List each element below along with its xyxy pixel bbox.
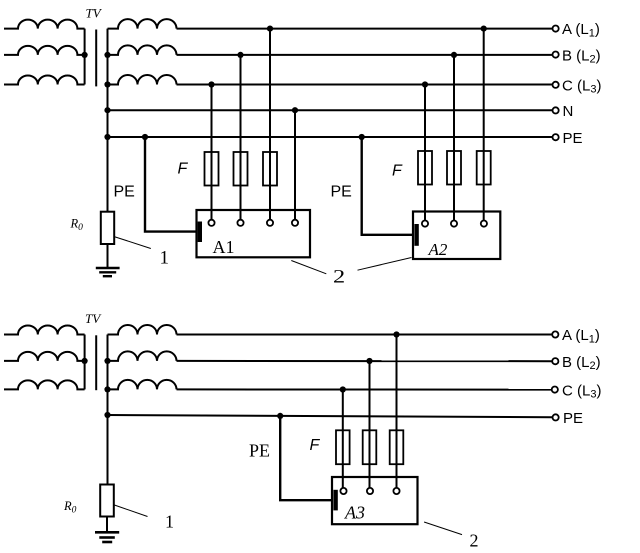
transformer TV primary winding phase 3 (bottom) [4,380,85,389]
wire secondary bus down to earthing resistor (bottom) [107,335,109,485]
fuse F phase A (bottom) [390,430,404,464]
load box A1 [197,210,311,257]
terminal line B [553,52,559,58]
junction PE line branch to A2 [359,134,365,140]
wire drop C to fuse F1 (bottom) [342,390,344,488]
transformer TV primary winding phase 2 [4,46,85,55]
junction C line drop (bottom) [340,386,346,392]
terminal line B (bottom) [552,358,558,364]
junction B line drop (bottom) [366,358,372,364]
svg-text:F: F [392,162,403,179]
svg-text:TV: TV [86,6,103,21]
svg-text:F: F [178,160,189,177]
terminal line C [553,82,559,88]
transformer TV primary winding phase 1 (bottom) [4,325,85,334]
svg-text:A (L1): A (L1) [562,327,600,345]
leader line from A3 to callout 2 (bottom) [424,522,462,535]
svg-text:N: N [563,103,574,120]
pin terminal 2 of A1 [237,220,243,226]
wire R0 to ground [107,244,109,267]
svg-text:A3: A3 [344,503,365,523]
transformer TV secondary winding phase B [108,45,177,55]
wire primary star bus (bottom) [84,335,86,390]
pin terminal 3 of A1 [267,220,273,226]
junction C line drop 1 [208,81,214,87]
transformer TV primary winding phase 2 (bottom) [4,352,85,361]
junction N line drop 4 [292,107,298,113]
resistor R0 earthing resistor (bottom) [100,485,114,517]
fuse F group2 phase B [447,151,461,185]
transformer TV core bar (bottom) [95,335,97,390]
junction secondary bus phase B (bottom) [104,358,110,364]
pin terminal 3 of A3 [393,488,399,494]
fuse F phase B (bottom) [363,430,377,464]
wire R0 to ground (bottom) [106,517,108,532]
transformer TV secondary winding phase B (bottom) [108,351,177,361]
wire PE branch to A2 [362,137,414,235]
wire line C (L3) [177,84,553,86]
fuse F group2 phase A [477,151,491,185]
wire PE branch to A1 [145,137,197,232]
terminal line C (bottom) [552,387,558,393]
wire drop A to fuse F3 group 2 [483,29,485,221]
svg-text:PE: PE [563,410,583,427]
wire line B (L2) [177,54,553,56]
svg-text:TV: TV [85,311,102,326]
pin terminal 2 of A2 [451,221,457,227]
PE terminal bar of A2 [414,224,418,246]
junction PE line branch to A1 [142,134,148,140]
ground symbol (bottom) [95,532,119,542]
wire primary star bus [84,29,86,85]
wire drop N to A1 terminal 4 [294,110,296,220]
fuse F group1 phase B [234,152,248,186]
resistor R0 earthing resistor (top) [101,212,114,244]
terminal line PE (bottom) [553,414,559,420]
junction A line drop 3 [267,26,273,32]
wire line A (L1) bottom [177,334,553,336]
svg-text:A (L1): A (L1) [562,21,600,39]
fuse F group1 phase C [205,152,219,186]
transformer TV core bar [95,30,97,87]
svg-text:R0: R0 [70,216,84,233]
transformer TV primary winding phase 1 [4,20,85,29]
junction B line drop group2 [451,52,457,58]
svg-text:A1: A1 [213,237,235,257]
transformer TV secondary winding phase C (bottom) [108,380,177,389]
svg-text:PE: PE [563,130,583,147]
leader line to callout 1 (top) [114,237,151,249]
ground symbol (top) [96,268,120,276]
svg-text:1: 1 [165,512,174,532]
wire drop C to fuse F1 group 2 [424,85,426,221]
svg-text:R0: R0 [63,499,77,516]
fuse F group1 phase A [263,152,277,186]
junction primary bus phase 2 [82,52,88,58]
svg-text:2: 2 [333,266,345,287]
junction primary bus phase 2 (bottom) [82,358,88,364]
junction secondary bus N line [104,107,110,113]
pin terminal 1 of A2 [422,221,428,227]
PE terminal bar of A1 [198,222,202,243]
transformer TV secondary winding phase C [108,75,177,85]
PE terminal bar of A3 [333,490,337,511]
junction PE line branch to A3 [277,413,283,419]
fuse F phase C (bottom) [336,430,350,464]
junction A line drop (bottom) [393,331,399,337]
wire drop B to fuse F2 group 1 [240,55,242,220]
junction secondary bus phase C (bottom) [104,386,110,392]
leader line to callout 1 (bottom) [114,505,148,517]
junction secondary bus phase B [104,52,110,58]
wire drop B to fuse F2 (bottom) [369,361,371,488]
junction B line drop 2 [237,52,243,58]
svg-text:PE: PE [249,441,270,461]
junction secondary bus PE line (bottom) [104,412,110,418]
transformer TV secondary winding phase A (bottom) [108,325,177,335]
pin terminal 3 of A2 [481,221,487,227]
load box A2 [413,212,500,260]
pin terminal 4 of A1 [292,220,298,226]
wire drop B to fuse F2 group 2 [453,55,455,221]
svg-text:C (L3): C (L3) [562,77,601,95]
svg-text:B (L2): B (L2) [562,47,601,65]
wire PE branch to A3 [280,416,333,500]
svg-text:C (L3): C (L3) [562,382,601,400]
junction A line drop group2 [481,26,487,32]
junction C line drop group2 [422,81,428,87]
terminal line A [553,26,559,32]
svg-text:A2: A2 [428,240,448,259]
leader line from A2 to callout 2 [358,258,412,271]
svg-text:B (L2): B (L2) [562,354,601,372]
junction secondary bus phase C [104,81,110,87]
wire drop A to fuse F3 (bottom) [396,335,398,488]
wire line PE [108,136,553,138]
svg-text:2: 2 [470,531,479,551]
transformer TV secondary winding phase A [108,19,177,29]
wire line B (L2) bottom [177,360,553,362]
wire line N [108,109,553,111]
svg-text:PE: PE [114,184,135,201]
svg-text:PE: PE [331,184,352,201]
terminal line N [553,107,559,113]
pin terminal 2 of A3 [367,488,373,494]
svg-text:1: 1 [160,247,170,268]
svg-text:F: F [310,437,321,454]
wire drop A to fuse F3 group 1 [269,29,271,220]
wire line PE bottom [108,415,553,417]
wire drop C to fuse F1 group 1 [211,85,213,220]
wire secondary neutral bus down to earthing resistor [107,29,109,212]
fuse F group2 phase C [418,151,432,185]
wire line C (L3) bottom [177,388,553,390]
load box A3 [332,477,418,524]
terminal line PE [553,134,559,140]
wire line A (L1) [177,28,553,30]
junction secondary bus PE line [104,134,110,140]
leader line from A1 to callout 2 [291,261,326,274]
pin terminal 1 of A3 [340,488,346,494]
terminal line A (bottom) [552,331,558,337]
pin terminal 1 of A1 [208,220,214,226]
transformer TV primary winding phase 3 [4,75,85,84]
